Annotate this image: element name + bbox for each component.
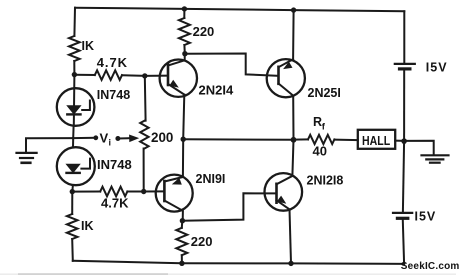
battery B2 15V plates: [393, 212, 412, 214]
transistor Q1 emitter arrow: [169, 80, 179, 88]
wire bottom rail: [73, 261, 404, 264]
wire right column bottom (battery to rail corner): [403, 220, 404, 264]
wire collector node to 2N1218 base step: [182, 193, 276, 220]
wire right column top (rail corner down to battery): [403, 11, 405, 63]
node junction emitters / output link: [181, 137, 186, 142]
wire 2N1218 collector to output node: [292, 140, 293, 176]
svg-text:HALL: HALL: [362, 133, 390, 148]
transistor Q3 emitter arrow (points to bar): [283, 62, 292, 70]
svg-text:I5V: I5V: [426, 61, 448, 75]
node junction rail / 220 top: [182, 6, 187, 11]
wire 2N251 collector to output node: [292, 96, 294, 140]
wire Vi node to zener D2: [72, 138, 74, 147]
resistor Rf 40: [308, 135, 334, 144]
resistor 4.7K lower: [100, 187, 127, 197]
svg-text:2NI9I: 2NI9I: [196, 172, 226, 186]
potentiometer wiper arrow: [118, 137, 130, 139]
transistor Q2 collector lead: [164, 201, 183, 221]
wire node to base of 2N214: [145, 75, 168, 77]
wire output node to Rf: [294, 138, 309, 140]
zener D2 bent hook mark: [81, 159, 90, 169]
node junction output (collectors/Rf): [291, 137, 297, 143]
node junction rail / 2N251 emitter: [291, 7, 296, 12]
wire zener D2 to lower node: [71, 185, 74, 191]
transistor Q1 2N214 circle: [160, 59, 197, 96]
transistor Q2 base bar: [163, 181, 166, 201]
wire node to zener D1: [73, 75, 76, 126]
transistor Q3 base bar: [277, 67, 280, 84]
zener D1 bent hook mark: [82, 101, 90, 111]
svg-text:V: V: [100, 131, 109, 146]
node junction left column / 4.7K lower: [70, 189, 75, 194]
node junction collector 2N214: [182, 51, 187, 56]
svg-text:2NI2I8: 2NI2I8: [307, 174, 344, 188]
transistor Q4 base bar: [275, 184, 278, 203]
resistor 220 bottom: [181, 221, 184, 228]
ground symbol left: [17, 153, 37, 163]
svg-text:IK: IK: [81, 219, 94, 233]
node junction 220 bottom / rail: [179, 261, 184, 266]
wire 2N1218 emitter to bottom rail: [290, 209, 292, 263]
wire zener D1 to Vi node: [72, 126, 74, 138]
transistor Q3 2N251 circle: [267, 59, 305, 97]
transistor Q4 emitter arrow (points out): [277, 196, 286, 204]
wire 1K to node: [73, 61, 75, 75]
zener D2 cathode bar: [67, 172, 80, 174]
zener diode D2 1N748 circle: [57, 147, 95, 185]
svg-text:IN748: IN748: [97, 157, 132, 172]
wire right column between battery1 and node: [403, 71, 405, 142]
wire collector node to 2N251 base step: [185, 54, 279, 76]
transistor Q1 base bar: [167, 64, 170, 85]
svg-text:4.7K: 4.7K: [97, 55, 128, 70]
transistor Q2 2N191 circle: [156, 175, 193, 212]
svg-text:IN748: IN748: [97, 88, 130, 102]
potentiometer wiper arrow tail dot: [115, 136, 120, 141]
wire node to 1K lower: [71, 192, 73, 214]
resistor 220 top: [179, 18, 190, 45]
svg-text:SeekIC.com: SeekIC.com: [401, 261, 460, 272]
svg-text:220: 220: [191, 234, 213, 249]
resistor 4.7K upper: [95, 70, 122, 80]
svg-text:R: R: [313, 115, 322, 129]
node junction rail / 2N1218 emitter: [288, 261, 293, 266]
wire left column top segment: [73, 8, 76, 36]
transistor Q2 emitter lead: [164, 177, 183, 182]
svg-text:40: 40: [313, 144, 327, 159]
wire node to 4.7K: [74, 74, 94, 76]
wire rail to 220: [183, 9, 185, 18]
wire HALL to right column node: [395, 140, 404, 142]
wire 2N251 emitter to rail: [292, 10, 295, 59]
HALL generator box: [358, 130, 395, 149]
wire emitters 2N214 to 2N191: [183, 95, 184, 177]
wire 220 to collector node 2N214: [183, 45, 185, 54]
wire Rf to HALL box: [334, 139, 357, 142]
svg-text:4.7K: 4.7K: [101, 196, 129, 211]
svg-text:2N2I4: 2N2I4: [199, 83, 234, 98]
transistor Q2 emitter arrow (points to bar): [172, 178, 182, 185]
zener D1 cathode bar: [67, 113, 80, 115]
svg-text:IK: IK: [82, 39, 95, 53]
wire pot bottom lead: [143, 149, 145, 192]
node junction pot bottom / base 2N191: [141, 189, 146, 194]
wire right column node to battery2: [403, 141, 404, 211]
transistor Q1 emitter lead: [168, 84, 184, 95]
wire Vi node to Vi terminal dot: [73, 137, 96, 139]
node junction right column / HALL / ground: [401, 138, 407, 144]
transistor Q4 emitter lead: [277, 200, 290, 209]
potentiometer 200 element: [140, 121, 148, 149]
svg-text:200: 200: [151, 130, 173, 145]
transistor Q4 2N1218 circle: [265, 173, 303, 211]
ground symbol right: [422, 155, 449, 162]
wire 4.7K lower to pot-bottom node: [127, 191, 143, 193]
wire node to right ground: [404, 141, 434, 155]
wire node to 4.7K lower: [72, 191, 100, 193]
svg-text:i: i: [109, 138, 112, 148]
transistor Q3 emitter lead (top): [279, 59, 294, 67]
resistor R 1K upper-left: [69, 36, 80, 61]
wire 1K lower to bottom rail corner: [71, 239, 74, 261]
wire node to base of 2N191: [144, 190, 165, 192]
node junction pot top / base 2N214: [142, 73, 147, 78]
node junction left column / 4.7K upper: [72, 72, 77, 77]
wire Vi node to left ground: [26, 138, 73, 152]
resistor R 1K lower-left: [67, 214, 78, 239]
node junction collector 2N191 / 220 bottom: [180, 218, 185, 223]
zener D1 triangle anode: [67, 106, 80, 114]
svg-text:220: 220: [193, 24, 215, 39]
transistor Q1 collector lead: [168, 54, 185, 66]
transistor Q3 collector lead: [279, 84, 294, 96]
transistor Q4 collector lead (top): [277, 176, 293, 184]
zener D2 triangle anode: [67, 164, 80, 172]
node Vi terminal dot: [93, 135, 98, 140]
wire 220 bottom to rail: [181, 255, 183, 263]
wire 4.7K to pot-top node: [122, 74, 145, 77]
wire top supply rail: [75, 8, 404, 12]
wire pot top lead: [144, 76, 147, 121]
svg-text:I5V: I5V: [415, 210, 437, 224]
wire emitter node to output node: [183, 138, 293, 141]
zener diode D1 1N748 circle: [57, 88, 95, 126]
svg-text:2N25I: 2N25I: [308, 86, 341, 100]
battery B1 15V plates: [395, 63, 415, 65]
